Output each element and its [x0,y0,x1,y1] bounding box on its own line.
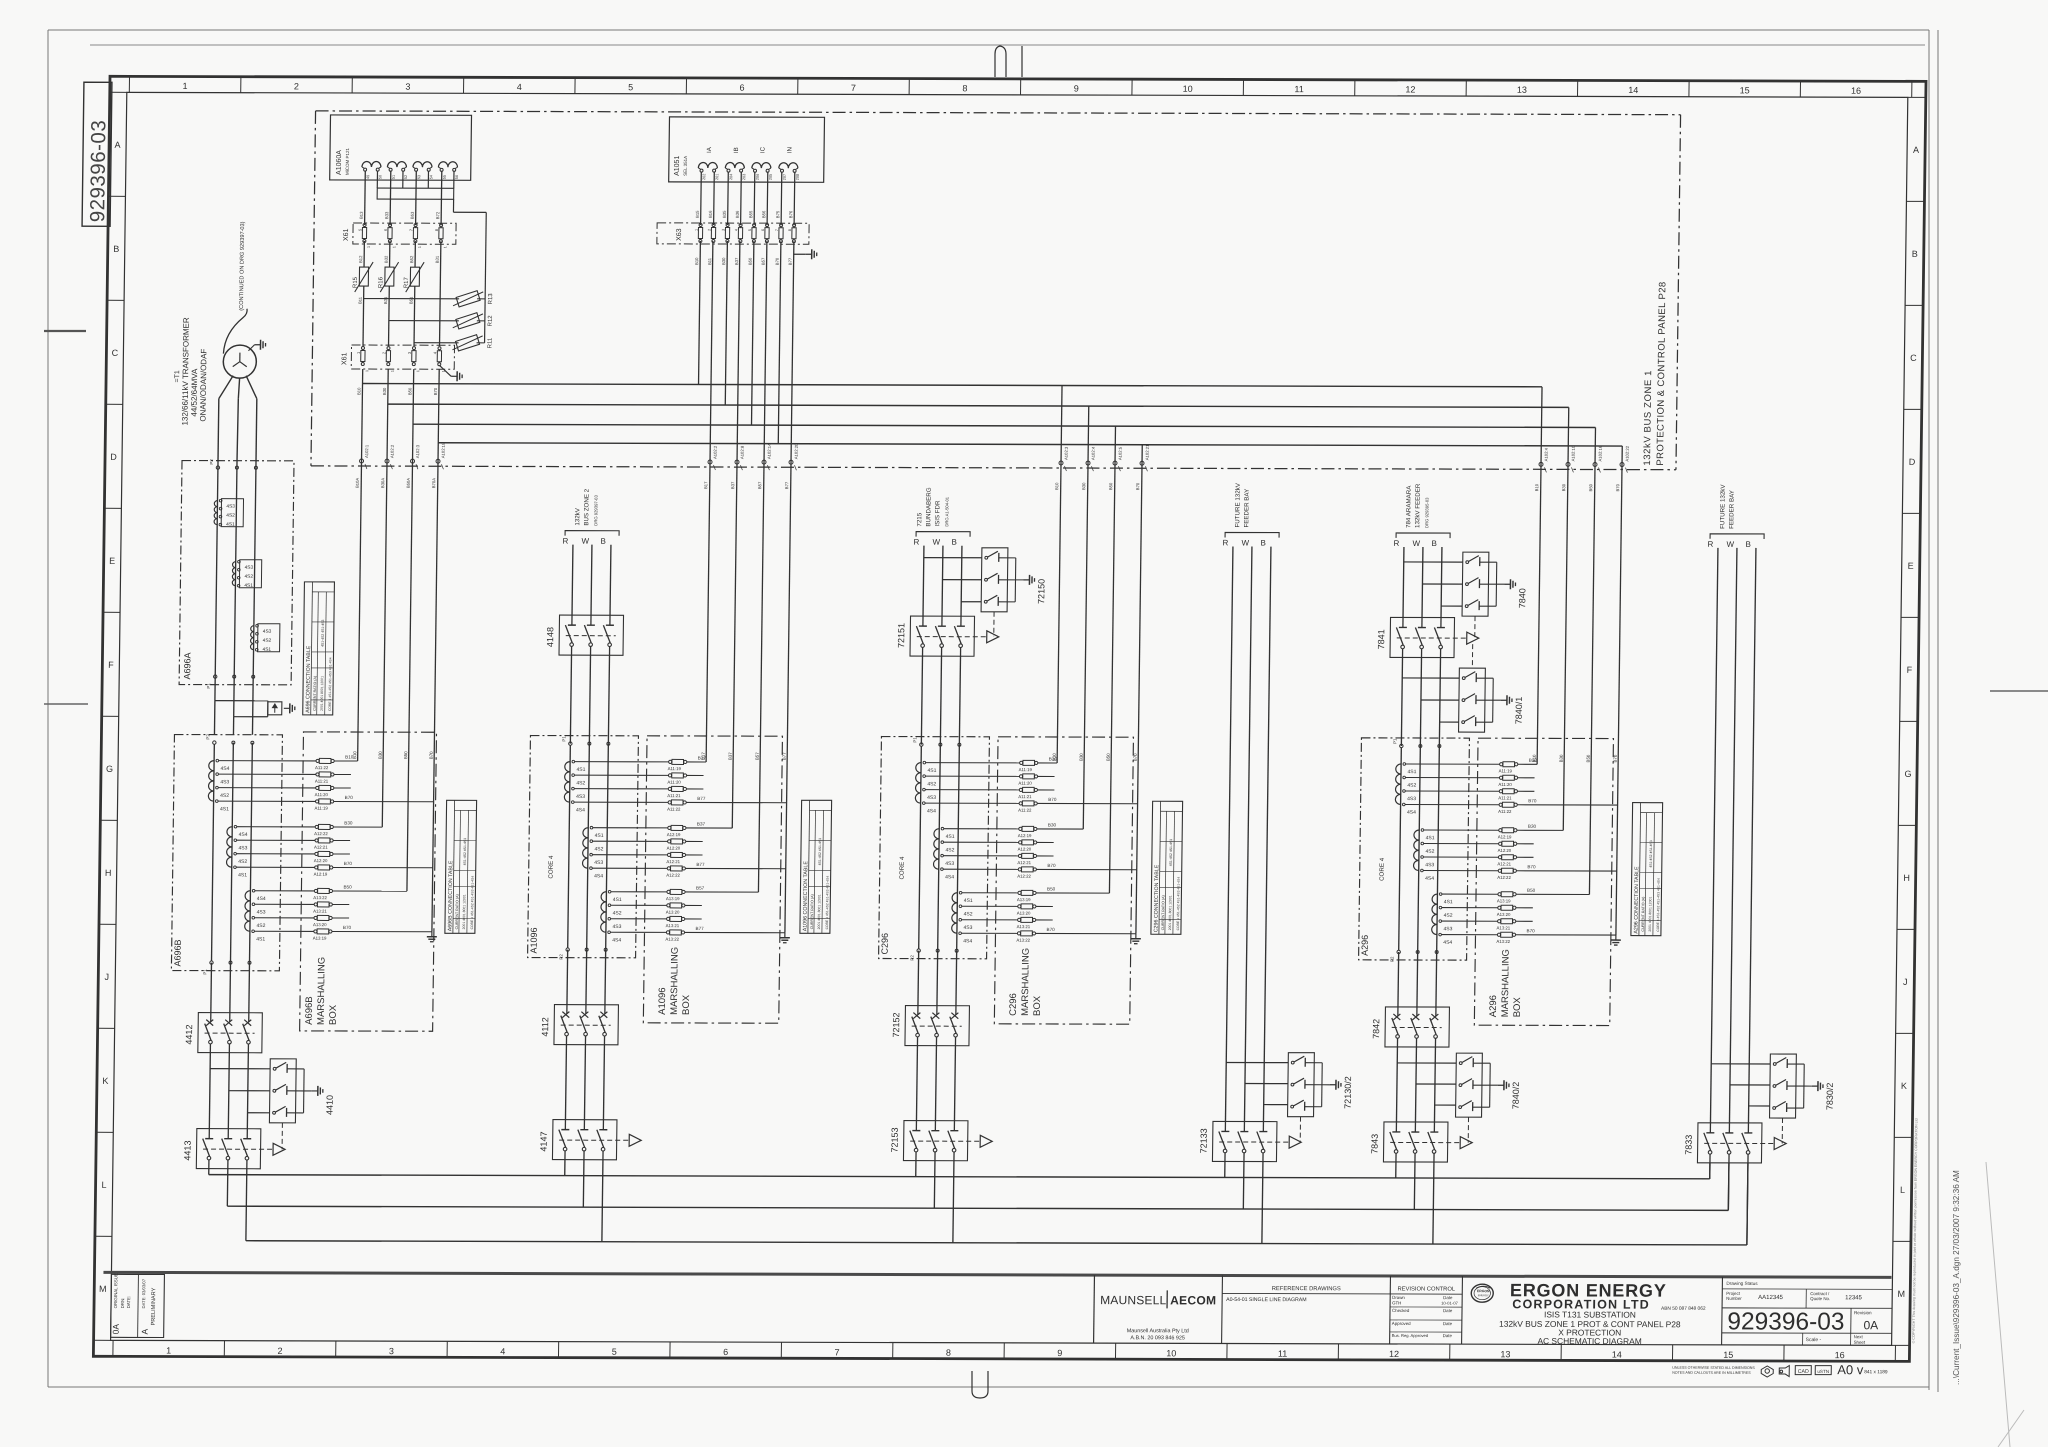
svg-text:202: 202 [702,174,706,180]
svg-text:A13:22: A13:22 [665,937,679,942]
fuses X63 [699,223,702,226]
svg-text:A13:21: A13:21 [666,923,680,928]
svg-text:F: F [108,660,114,670]
svg-text:B77: B77 [696,862,705,867]
svg-text:72153: 72153 [890,1128,900,1153]
panel bus 2 [388,404,1569,407]
svg-text:4S4: 4S4 [257,896,266,902]
svg-text:A1060A: A1060A [336,150,343,175]
wire to bus B [953,1161,954,1243]
corner curl bottom right [1986,1162,2010,1447]
fuse links group 1 [926,762,1020,764]
svg-text:ERGON: ERGON [1477,1289,1490,1293]
svg-text:B10: B10 [694,257,699,265]
project number cell [1722,1307,1892,1309]
svg-text:R13: R13 [488,293,494,305]
riser wire B17 [706,464,710,762]
svg-text:A12:22: A12:22 [314,831,328,836]
svg-text:A13:22: A13:22 [1016,938,1030,943]
CT winding A696A group 3 [251,626,254,632]
svg-text:A11:22: A11:22 [1498,809,1512,814]
svg-text:Date: Date [1443,1333,1453,1338]
svg-text:B15: B15 [695,210,700,218]
marshalling earth [784,933,786,938]
wire phase R [1710,548,1717,1123]
cable bracket FUTURE 132kV FEEDER BAY [1710,534,1764,539]
riser wire B10 [1537,466,1541,764]
connection table A696B [445,800,477,933]
svg-text:C: C [112,348,119,358]
svg-text:9: 9 [1074,84,1079,94]
svg-text:B50: B50 [1106,753,1111,761]
svg-text:R: R [913,538,919,547]
svg-text:4S4: 4S4 [220,766,229,772]
svg-text:55: 55 [443,175,447,179]
svg-text:12: 12 [1389,1349,1399,1359]
svg-text:B57: B57 [761,257,766,265]
svg-text:A102:4: A102:4 [1091,446,1096,460]
svg-text:1: 1 [365,370,369,372]
circuit breaker 72153 [903,1121,968,1161]
svg-text:B70: B70 [345,795,354,800]
wire B55 to bus [752,241,754,425]
disconnector 72151 [910,616,975,656]
left letter strip [110,91,127,93]
panel boundary dash-dot [316,111,1681,115]
cad icon [1795,1366,1811,1375]
svg-text:4S4: 4S4 [963,938,972,944]
cable bracket 132kV [565,531,619,536]
svg-text:A13:20: A13:20 [666,910,680,915]
svg-text:A: A [1913,145,1919,155]
wire B16 [710,241,713,464]
bottom bus R [209,1175,1710,1179]
svg-text:56: 56 [455,175,459,179]
svg-text:B70: B70 [1048,797,1057,802]
wire [453,171,455,189]
svg-text:10: 10 [1183,84,1193,94]
svg-text:A12:21: A12:21 [1017,860,1031,865]
riser wire B50 [1589,466,1595,894]
svg-text:A12:20: A12:20 [1018,847,1032,852]
wire phase B [1748,548,1755,1123]
svg-text:DRN:: DRN: [120,1298,125,1309]
svg-text:12: 12 [1405,84,1415,94]
svg-text:AECOM: AECOM [1170,1293,1216,1307]
svg-text:4S3: 4S3 [1407,796,1416,802]
svg-text:5: 5 [748,229,752,231]
svg-text:B70: B70 [344,861,353,866]
resistor R15 [359,267,368,286]
svg-text:11: 11 [1294,84,1303,94]
terminal strip X61 upper [353,223,456,244]
svg-text:B30: B30 [721,257,726,265]
CT winding group 1 C296 [916,763,921,773]
CT box A696A [179,461,294,685]
svg-text:B70: B70 [1613,754,1618,762]
svg-text:1: 1 [367,246,371,248]
svg-text:4S1: 4S1 [576,767,585,773]
svg-text:FUTURE 132kV: FUTURE 132kV [1234,482,1242,527]
bottom alignment mark [972,1371,988,1398]
svg-text:P1: P1 [912,737,917,743]
svg-text:B77: B77 [696,926,705,931]
circuit breaker 7833 [1697,1123,1762,1163]
wire to bus R [208,1169,210,1175]
svg-text:929396-03: 929396-03 [86,120,110,223]
svg-text:1: 1 [416,370,420,372]
issue box [111,1274,165,1337]
svg-text:A0 v: A0 v [1837,1362,1864,1377]
svg-text:4S2: 4S2 [1444,913,1453,919]
wire to bus B [1433,1162,1434,1244]
svg-text:B77: B77 [788,257,793,265]
fused tails [1036,892,1109,894]
svg-text:784 ARAMARA: 784 ARAMARA [1405,485,1413,528]
relay winding IB A1051 [725,163,744,169]
svg-text:4S1: 4S1 [964,898,973,904]
CT winding group 1 A696B [209,761,214,771]
svg-text:B75: B75 [775,210,780,218]
CT box C296 [879,736,990,958]
svg-text:A11:21: A11:21 [1498,795,1512,800]
svg-text:B70: B70 [1047,863,1056,868]
svg-text:4S1: 4S1 [244,583,253,589]
svg-text:Drawing Status: Drawing Status [1726,1281,1758,1286]
svg-text:G: G [106,764,113,774]
wire [402,171,404,189]
svg-text:BOX: BOX [681,994,692,1015]
CT winding group 3 A1096 [601,892,606,902]
svg-text:BOX: BOX [1512,997,1523,1018]
resistor R16 [385,267,394,286]
svg-text:E: E [109,556,115,566]
wire B36 [737,241,740,464]
svg-text:B30: B30 [382,387,387,395]
svg-text:B30: B30 [378,751,383,759]
svg-text:B70: B70 [1047,927,1056,932]
svg-text:16: 16 [1851,86,1861,96]
svg-text:10: 10 [1166,1348,1176,1358]
svg-text:4S1-4S2 4S1-4S3: 4S1-4S2 4S1-4S3 [463,838,467,865]
svg-text:MARSHALLING: MARSHALLING [669,947,681,1015]
CT box A296 [1359,738,1470,960]
svg-text:B50: B50 [407,387,412,395]
top alignment mark [995,46,1006,77]
svg-text:Maunsell Australia Pty Ltd: Maunsell Australia Pty Ltd [1127,1328,1189,1334]
svg-text:A102:5: A102:5 [1118,446,1123,460]
relay winding 4 A1060A [438,162,457,168]
svg-text:R15: R15 [353,276,359,288]
svg-text:51: 51 [392,175,396,179]
wire through CT box [1399,748,1402,951]
riser wire B10 [1057,465,1061,763]
disconnector 4148 [559,615,624,655]
svg-text:54: 54 [429,175,433,179]
svg-text:G: G [1904,769,1911,779]
svg-text:A696B CONNECTION TABLE: A696B CONNECTION TABLE [447,860,454,931]
svg-text:A13:19: A13:19 [666,896,680,901]
svg-text:4112: 4112 [540,1017,550,1036]
svg-text:B16: B16 [708,210,713,218]
svg-text:A11:21: A11:21 [1018,794,1032,799]
svg-text:A13:19: A13:19 [1017,897,1031,902]
fuses X61 lower [361,347,364,350]
connection table A296 [1631,803,1663,936]
drawing number box [82,82,112,226]
svg-text:A102:14: A102:14 [767,443,772,459]
svg-text:A12:22: A12:22 [1017,874,1031,879]
svg-text:Date: Date [1443,1321,1453,1326]
svg-text:FUTURE 132kV: FUTURE 132kV [1719,484,1727,529]
svg-text:203: 203 [742,174,746,180]
svg-text:B: B [1745,540,1750,549]
isolator 72152 [905,1006,970,1046]
paper edge lines [48,29,1929,31]
wire B72 [440,171,443,226]
wire phase R [922,546,925,617]
svg-text:1: 1 [443,246,447,248]
svg-text:B51: B51 [409,296,414,304]
svg-text:3: 3 [389,1346,394,1356]
wire phase B [960,546,963,617]
svg-text:R: R [562,537,568,546]
earth switch 7840 [1462,552,1489,616]
scale cell [1802,1333,1804,1345]
disconnector 7841 [1390,617,1455,657]
svg-text:Quote No.: Quote No. [1810,1296,1830,1301]
svg-text:ENERGY: ENERGY [1478,1293,1489,1297]
svg-text:Date: Date [1443,1295,1453,1300]
varistor R13 [456,291,480,307]
svg-text:A13:19: A13:19 [313,936,327,941]
svg-text:4S4: 4S4 [945,874,954,880]
svg-text:B35: B35 [722,210,727,218]
wire [570,655,571,744]
svg-text:CURRENT RATIO (A): CURRENT RATIO (A) [313,676,317,711]
svg-text:B70: B70 [429,751,434,759]
svg-text:132kV BUS ZONE 1: 132kV BUS ZONE 1 [1642,370,1654,466]
wire phase W [1729,548,1736,1123]
wire to bus W [933,1161,936,1209]
svg-text:7840/2: 7840/2 [1511,1082,1521,1110]
svg-text:AA12345: AA12345 [1758,1295,1783,1301]
svg-text:B57: B57 [755,752,760,760]
svg-text:4S3: 4S3 [1443,926,1452,932]
svg-text:A12:19: A12:19 [667,832,681,837]
svg-text:B10A: B10A [355,478,360,488]
svg-text:DRG 929395-03: DRG 929395-03 [1424,497,1429,528]
relay winding IA A1051 [698,162,717,168]
svg-text:A102:10: A102:10 [1571,445,1576,461]
svg-text:K: K [1901,1081,1907,1091]
earth switch 72130/2 [1288,1053,1315,1117]
svg-text:P2: P2 [910,955,915,961]
wire [213,701,215,735]
svg-text:B: B [1912,249,1918,259]
wire [388,286,391,346]
svg-text:E: E [1908,561,1914,571]
inner drawing frame [111,92,1908,1345]
earth switch 7830/2 [1770,1054,1797,1118]
panel bus 1 [363,384,1543,387]
outer border frame [93,76,1926,1361]
boundary terminals bay1 [359,459,363,463]
svg-text:A11:19: A11:19 [1019,767,1033,772]
svg-text:A11:20: A11:20 [315,792,329,797]
svg-text:4S3: 4S3 [576,794,585,800]
svg-text:IA: IA [706,146,713,153]
riser wire B50 [1109,465,1115,893]
CT winding group 1 A296 [1396,764,1401,774]
svg-text:201: 201 [715,174,719,180]
svg-text:X61: X61 [343,228,350,241]
marshalling box A696B [300,732,437,1031]
svg-text:4S3: 4S3 [945,861,954,867]
svg-text:B70: B70 [1527,928,1536,933]
wire return [452,199,454,212]
svg-text:CURRENT RATIO (A): CURRENT RATIO (A) [455,894,459,929]
svg-text:P2: P2 [1390,956,1395,962]
svg-text:Sheet: Sheet [1854,1340,1866,1345]
svg-text:4S2: 4S2 [1407,783,1416,789]
svg-text:2001 4001 8001 12001: 2001 4001 8001 12001 [817,894,821,929]
svg-text:B32: B32 [384,255,389,263]
riser wire B37 [732,464,737,828]
terminal P1 [569,742,572,745]
svg-text:B30: B30 [344,820,353,825]
svg-text:K: K [102,1076,108,1086]
svg-text:J: J [104,972,109,982]
svg-text:50: 50 [378,175,382,179]
bay4 drops [1541,387,1542,467]
svg-text:A12:19: A12:19 [1018,833,1032,838]
transformer T1 circle [223,345,256,378]
svg-text:B37: B37 [697,821,706,826]
svg-text:4S2: 4S2 [964,911,973,917]
top ruler strip [128,76,130,92]
svg-text:A11:20: A11:20 [1018,781,1032,786]
connection table A1096 [800,800,832,933]
svg-text:P1: P1 [561,736,566,742]
svg-text:4S1: 4S1 [226,522,235,528]
svg-text:B77: B77 [782,752,787,760]
wire phase B [1263,547,1270,1122]
svg-text:4S1-4S2 4S1-4S3: 4S1-4S2 4S1-4S3 [1649,840,1653,867]
svg-text:4S4: 4S4 [1443,940,1452,946]
svg-text:A13:20: A13:20 [1497,912,1511,917]
svg-text:3: 3 [405,82,410,92]
terminal strip X63 [657,223,809,244]
svg-text:W: W [1412,539,1420,548]
wire to bus W [582,1160,585,1208]
bay3 drops [1061,385,1062,465]
wire [1395,1047,1398,1122]
wire [363,241,365,267]
terminal P1 [210,961,213,964]
svg-text:MARSHALLING: MARSHALLING [316,957,328,1025]
ustn icon [1815,1366,1831,1375]
ergon energy logo [1471,1284,1493,1302]
fuse links group 3 [1442,893,1498,895]
fuses X61 upper [363,224,366,227]
marshalling earth [1615,935,1617,940]
svg-text:DATE:: DATE: [126,1296,131,1309]
wire through CT box [568,745,571,948]
svg-text:8: 8 [946,1348,951,1358]
svg-text:B12: B12 [358,255,363,263]
svg-text:B31: B31 [435,255,440,263]
svg-text:B70: B70 [433,387,438,395]
svg-text:4S1-4S2 4S1-4S3: 4S1-4S2 4S1-4S3 [818,838,822,865]
svg-text:P2: P2 [209,459,214,465]
svg-text:A13:19: A13:19 [1497,898,1511,903]
svg-text:A12:21: A12:21 [1497,861,1511,866]
svg-text:Approved: Approved [1392,1321,1411,1326]
circuit breaker 7843 [1383,1122,1448,1162]
earth switch 7840/1 [1459,668,1486,732]
svg-text:B10: B10 [1534,483,1539,491]
svg-text:4S2: 4S2 [945,847,954,853]
wire phase W [1421,547,1424,618]
wire phase R [571,545,574,616]
svg-text:L: L [1900,1185,1905,1195]
wire phase W [941,546,944,617]
svg-text:A11:20: A11:20 [667,780,681,785]
svg-text:B13: B13 [359,211,364,219]
svg-text:A12:19: A12:19 [314,872,328,877]
svg-text:B37: B37 [730,481,735,489]
svg-text:B10: B10 [352,751,357,759]
svg-text:AC SCHEMATIC DIAGRAM: AC SCHEMATIC DIAGRAM [1537,1336,1641,1346]
fuse links group 2 [593,827,668,829]
svg-text:2: 2 [294,81,299,91]
svg-text:FEEDER BAY: FEEDER BAY [1243,489,1251,528]
right letter strip [1908,96,1926,98]
svg-text:B50: B50 [403,751,408,759]
svg-text:204: 204 [729,174,733,180]
CT winding group 3 C296 [952,893,957,903]
fuse links group 2 [1424,829,1499,831]
svg-text:B30: B30 [1079,753,1084,761]
transformer star point symbol [239,353,241,362]
bottom ruler strip [112,1340,114,1356]
marshalling box A296 [1474,738,1613,1025]
svg-text:132kV: 132kV [574,507,581,525]
connection table C296 [1151,801,1183,934]
svg-text:A1096: A1096 [657,987,668,1015]
svg-text:P1: P1 [1392,738,1397,744]
svg-text:4: 4 [500,1346,505,1356]
wire B76 [791,241,794,464]
svg-text:A11:22: A11:22 [667,807,681,812]
wire to bus B [602,1160,603,1242]
svg-text:A696B: A696B [304,996,315,1025]
svg-text:2001 4001 8001 12001: 2001 4001 8001 12001 [1168,895,1172,930]
svg-text:4S4: 4S4 [576,807,585,813]
svg-text:15: 15 [1723,1350,1733,1360]
svg-text:14: 14 [1612,1350,1622,1360]
svg-text:4S4: 4S4 [1425,876,1434,882]
svg-text:A1051: A1051 [674,156,681,176]
svg-text:BOX: BOX [328,1004,339,1025]
svg-text:A11:22: A11:22 [315,765,329,770]
svg-text:ISIS FDR: ISIS FDR [934,500,941,527]
svg-text:A102:3: A102:3 [1064,446,1069,460]
svg-text:4S1: 4S1 [927,768,936,774]
fused tails [333,826,382,828]
svg-text:GTH: GTH [1392,1300,1401,1305]
